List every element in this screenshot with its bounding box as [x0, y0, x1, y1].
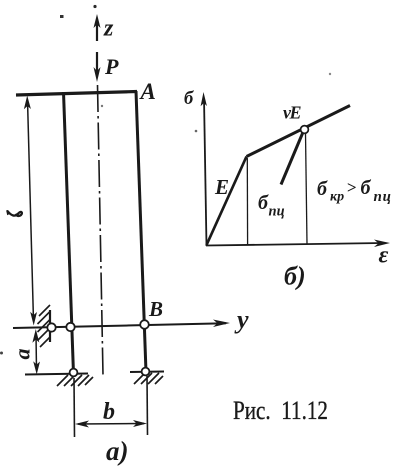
- lower-right ground hatching: [134, 373, 163, 384]
- tangent modulus line: [281, 131, 304, 185]
- lower-left ground hatching: [57, 375, 93, 386]
- column left edge: [64, 92, 74, 374]
- left wall line: [49, 310, 51, 342]
- initial elastic line: [207, 157, 247, 246]
- left wall hatching: [38, 305, 51, 347]
- dimension a line with arrowheads: [32, 329, 40, 375]
- epsilon axis: [206, 240, 390, 248]
- force P arrow: [94, 52, 101, 82]
- y axis arrowhead: [213, 320, 230, 328]
- svg-text:б: б: [317, 178, 328, 200]
- svg-text:б: б: [361, 177, 372, 199]
- svg-text:ε: ε: [379, 243, 389, 269]
- dimension l label (rotated): [6, 210, 22, 216]
- svg-text:a: a: [10, 349, 35, 360]
- svg-text:b: b: [103, 399, 115, 425]
- y axis line: [13, 323, 226, 328]
- scattered specks: [0, 352, 3, 355]
- svg-text:кр: кр: [330, 190, 344, 205]
- svg-text:E: E: [214, 175, 229, 199]
- open point on curve: [301, 126, 309, 134]
- sigma axis: [201, 92, 207, 246]
- svg-text:>: >: [347, 178, 357, 197]
- vertical line at proportionality limit: [246, 158, 248, 244]
- svg-text:A: A: [139, 79, 156, 104]
- svg-text:νE: νE: [283, 103, 302, 123]
- lower-right ground line: [130, 371, 164, 374]
- vertical line below point: [306, 133, 308, 244]
- node B pin circle: [140, 320, 149, 329]
- svg-text:б: б: [258, 192, 269, 214]
- svg-text:Рис. 11.12: Рис. 11.12: [233, 396, 328, 425]
- pin circle on column left edge at y-line: [66, 323, 74, 331]
- svg-text:B: B: [148, 297, 163, 321]
- svg-text:z: z: [103, 16, 114, 42]
- dimension l line with arrowheads: [24, 96, 37, 326]
- column centre dash-dot axis: [98, 85, 104, 375]
- svg-text:a): a): [106, 436, 129, 466]
- pin circle on wall: [47, 323, 55, 331]
- dimension b line with arrowheads: [75, 420, 147, 428]
- lower-left ground line: [25, 374, 88, 375]
- hardening line: [247, 106, 351, 157]
- svg-text:б: б: [184, 89, 194, 109]
- column right edge: [136, 91, 146, 372]
- svg-text:y: y: [234, 305, 249, 334]
- svg-text:P: P: [104, 54, 119, 79]
- b extension line right: [146, 376, 149, 435]
- lower-right pin circle: [142, 368, 150, 376]
- speck left of z: [60, 15, 64, 18]
- svg-text:пц: пц: [269, 204, 285, 220]
- z axis arrow: [94, 14, 101, 41]
- b extension line left: [73, 378, 76, 437]
- lower-left pin circle: [70, 369, 78, 377]
- svg-text:б): б): [284, 262, 306, 291]
- speck above z: [93, 5, 96, 8]
- column top edge line: [16, 92, 137, 96]
- svg-text:пц: пц: [374, 189, 392, 205]
